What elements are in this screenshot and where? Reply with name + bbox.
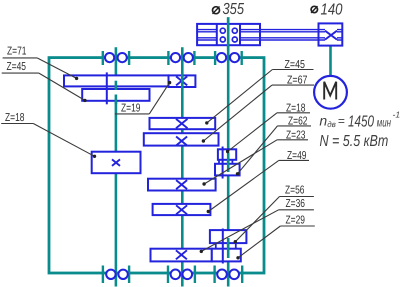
hub line Z56/Z29 cluster — [222, 229, 224, 264]
svg-text:Z=71: Z=71 — [7, 45, 27, 57]
svg-text:355: 355 — [223, 1, 245, 18]
dim D140 — [311, 6, 317, 12]
gear Z36 shaft II — [151, 249, 212, 262]
gear Z67 shaft II — [144, 133, 219, 145]
gear Z71 shaft I — [64, 75, 169, 86]
shaft II — [181, 47, 184, 286]
connector Z18/Z62 cluster — [218, 160, 220, 164]
housing frame — [49, 58, 264, 273]
motor shaft — [329, 46, 332, 77]
svg-text:N = 5.5 кВт: N = 5.5 кВт — [320, 133, 389, 150]
hub line Z18/Z62 cluster — [222, 147, 224, 179]
svg-text:Z=19: Z=19 — [121, 102, 141, 114]
svg-text:1450: 1450 — [348, 114, 374, 131]
svg-text:мин: мин — [377, 115, 391, 129]
bearing B5 bottom shaft II — [168, 266, 195, 284]
big pulley D355 — [197, 24, 260, 45]
shaft I visible segments over gears — [115, 81, 118, 90]
gear Z23 shaft II — [148, 179, 216, 191]
belt section circles — [220, 28, 225, 33]
dim D355 — [213, 7, 220, 14]
svg-text:-1: -1 — [393, 110, 401, 120]
gear Z56 shaft III — [210, 230, 247, 243]
shaft III visible over cluster — [227, 238, 230, 258]
gear Z18 right shaft III — [218, 149, 236, 160]
svg-text:Z=36: Z=36 — [286, 198, 306, 210]
svg-text:n: n — [319, 112, 327, 128]
gear Z49 shaft II — [153, 204, 211, 215]
bearing B4 bottom shaft I — [103, 266, 129, 284]
shaft III over pulley — [227, 17, 230, 50]
hub line gears Z71/Z45 — [106, 72, 108, 104]
motor M — [314, 76, 347, 109]
shaft II visible through Z19 box — [181, 74, 184, 89]
bearing B2 top shaft II — [168, 51, 194, 65]
belt lines — [240, 30, 319, 40]
motor pulley D140 — [319, 23, 343, 45]
svg-text:=: = — [338, 114, 345, 128]
shaft III visible over cluster — [227, 153, 230, 173]
shaft I — [115, 47, 118, 286]
bearing B1 top shaft I — [103, 51, 129, 65]
svg-text:140: 140 — [321, 1, 343, 18]
gear Z45 left shaft I — [82, 89, 149, 101]
svg-text:Z=45: Z=45 — [7, 61, 27, 73]
svg-text:Z=29: Z=29 — [286, 214, 306, 226]
gear Z45 right shaft II — [150, 118, 216, 129]
gear Z29 shaft III — [212, 249, 241, 262]
svg-text:дв: дв — [327, 120, 336, 129]
connector Z56/Z29 cluster — [215, 243, 217, 249]
bearing B3 top shaft III — [215, 51, 242, 65]
svg-text:Z=56: Z=56 — [285, 184, 305, 196]
bearing B6 bottom shaft III — [215, 266, 243, 284]
gear Z19 x-box shaft II — [169, 75, 196, 87]
shaft III — [227, 17, 230, 286]
gear Z62 shaft III — [215, 164, 240, 176]
svg-text:Z=18: Z=18 — [5, 112, 25, 124]
gear Z18 x-box shaft I — [92, 152, 141, 174]
